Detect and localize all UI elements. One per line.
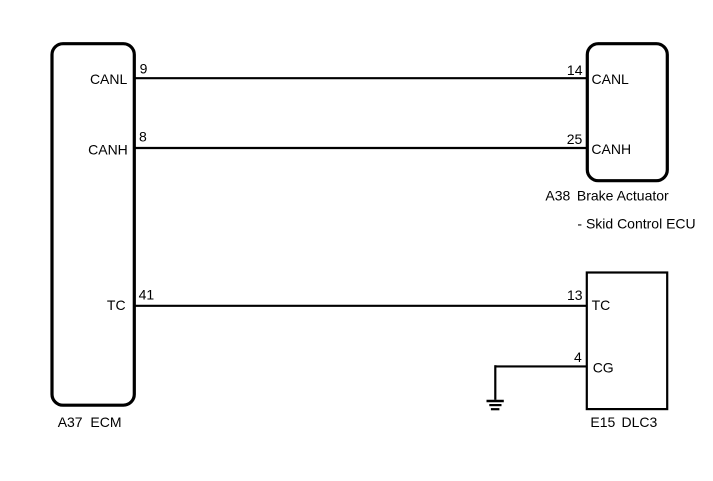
svg-text:A38: A38 (545, 188, 570, 204)
svg-text:41: 41 (139, 286, 155, 302)
svg-text:13: 13 (567, 287, 583, 303)
svg-text:DLC3: DLC3 (622, 414, 658, 430)
connector A37 ECM box (52, 44, 134, 406)
svg-text:TC: TC (107, 297, 126, 313)
wire ground stem vertical segment (494, 365, 496, 400)
svg-text:8: 8 (139, 128, 147, 144)
svg-text:CANH: CANH (88, 142, 128, 158)
wire CANH net A37-8 to A38-25 (134, 147, 587, 149)
svg-text:25: 25 (567, 131, 583, 147)
svg-text:9: 9 (140, 60, 148, 76)
wire CANL net A37-9 to A38-14 (134, 77, 587, 79)
svg-text:E15: E15 (590, 414, 615, 430)
svg-text:TC: TC (592, 297, 611, 313)
connector E15 DLC3 box (587, 273, 667, 410)
svg-text:4: 4 (574, 349, 582, 365)
wire CG net E15-4 to ground, horizontal segment (495, 365, 587, 367)
svg-text:CANL: CANL (592, 71, 630, 87)
svg-text:14: 14 (567, 62, 583, 78)
svg-text:- Skid Control ECU: - Skid Control ECU (577, 216, 695, 232)
svg-text:A37 ECM: A37 ECM (58, 414, 122, 430)
wire TC net A37-41 to E15-13 (134, 305, 587, 307)
svg-text:CANH: CANH (591, 141, 631, 157)
svg-text:CANL: CANL (90, 71, 128, 87)
ground symbol (487, 401, 504, 409)
svg-text:Brake Actuator: Brake Actuator (577, 188, 669, 204)
svg-text:CG: CG (593, 359, 614, 375)
connector A38 Brake Actuator box (587, 44, 667, 181)
